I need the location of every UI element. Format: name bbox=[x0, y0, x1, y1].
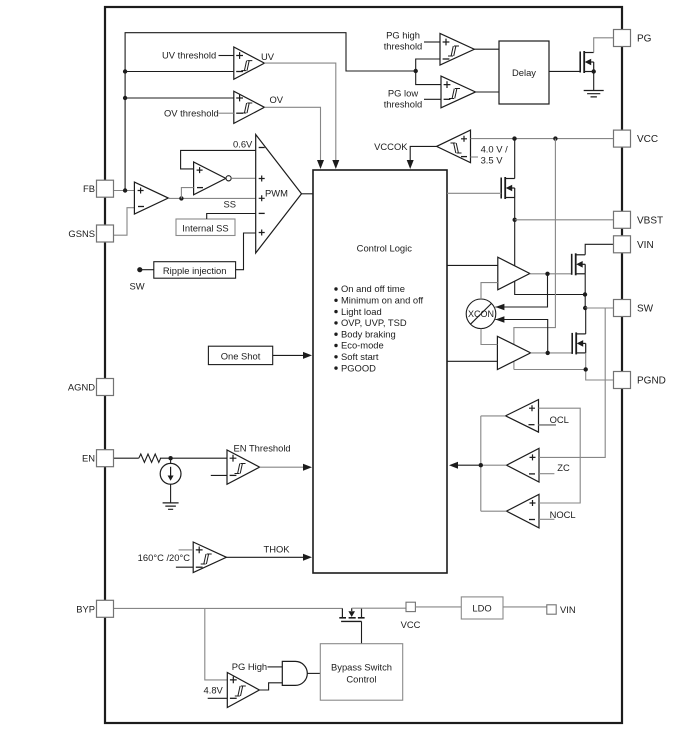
svg-text:VCC: VCC bbox=[637, 134, 658, 145]
wire VBST to pin bbox=[515, 219, 614, 221]
wire XCON gate-sense high bbox=[495, 274, 547, 307]
wire EN comparator output bbox=[260, 466, 304, 468]
wire Q4 source to PGND bbox=[586, 353, 614, 380]
wire FB pin to error amp + bbox=[114, 190, 134, 192]
node SW junction bbox=[583, 306, 587, 310]
wire Q2 drain to VCC bbox=[514, 139, 516, 179]
svg-text:OV threshold: OV threshold bbox=[164, 108, 219, 119]
svg-text:Bypass Switch: Bypass Switch bbox=[331, 662, 392, 673]
wire Q1 source down bbox=[593, 72, 595, 91]
arrow into XCON lower bbox=[495, 316, 504, 323]
svg-text:LDO: LDO bbox=[472, 603, 491, 614]
svg-text:SW: SW bbox=[637, 304, 654, 315]
wire Q5 gate to Bypass Switch Control bbox=[361, 621, 363, 643]
svg-text:UV threshold: UV threshold bbox=[162, 50, 216, 61]
box Delay bbox=[499, 41, 549, 104]
wire VCCOK output to Control Logic bbox=[410, 146, 436, 165]
wire SW to pin bbox=[585, 307, 613, 309]
svg-text:threshold: threshold bbox=[384, 99, 423, 110]
svg-text:4.8V: 4.8V bbox=[204, 685, 224, 696]
wire 0.6V comparator output to PWM + bbox=[231, 177, 256, 179]
pin PG bbox=[614, 30, 631, 47]
box Ripple injection bbox=[154, 262, 236, 279]
svg-text:4.0 V /: 4.0 V / bbox=[481, 144, 508, 155]
comparator EN threshold bbox=[227, 450, 260, 484]
wire Q4 drain to SW node bbox=[585, 308, 587, 334]
node low gate junction bbox=[546, 351, 550, 355]
wire THOK output bbox=[226, 556, 304, 558]
wire Q2 source to VBST node bbox=[514, 198, 516, 220]
comparator PWM bbox=[256, 135, 302, 254]
comparator thermal THOK bbox=[193, 542, 226, 573]
svg-text:PG high: PG high bbox=[386, 30, 420, 41]
wire PWM output to Control Logic bbox=[302, 193, 314, 195]
comparator 4.8V bypass bbox=[227, 673, 259, 708]
wire Ripple injection to PWM + bbox=[236, 233, 256, 270]
wire EN pin to resistor bbox=[114, 457, 139, 459]
wire UV threshold stub bbox=[219, 55, 234, 57]
wire FB sense rail to PG comparators (top loop) bbox=[125, 33, 416, 191]
wire One Shot to Control Logic bbox=[273, 354, 304, 356]
wire VBST rail down behind driver bbox=[515, 220, 585, 295]
wire EN node to comparator bbox=[160, 457, 227, 459]
svg-text:OV: OV bbox=[270, 94, 284, 105]
node high gate junction bbox=[545, 272, 549, 276]
comparator ZC bbox=[507, 448, 540, 482]
svg-text:Ripple injection: Ripple injection bbox=[163, 265, 227, 276]
node Q4 source junction bbox=[584, 367, 588, 371]
comparator OCL bbox=[506, 400, 539, 433]
wire PG low - stub bbox=[424, 98, 441, 100]
wire XCON to low driver bbox=[481, 329, 497, 345]
pin AGND bbox=[97, 379, 114, 396]
bubble on 0.6V comparator output bbox=[226, 176, 231, 181]
pin BYP bbox=[97, 600, 114, 617]
current source EN pulldown bbox=[160, 463, 181, 484]
wire NOCL - stub bbox=[539, 518, 554, 520]
wire comparator output rail bbox=[480, 416, 482, 511]
node PG tie junction bbox=[414, 69, 418, 73]
arrow THOK into Control Logic bbox=[303, 554, 312, 561]
wire OV output to Control Logic bbox=[264, 107, 320, 165]
node FB junction bbox=[123, 188, 127, 192]
node comparator rail junction bbox=[479, 463, 483, 467]
arrow One Shot into Control Logic bbox=[303, 352, 312, 359]
svg-text:160°C /20°C: 160°C /20°C bbox=[138, 552, 191, 563]
arrow comparators into Control Logic bbox=[449, 462, 458, 469]
svg-text:PGOOD: PGOOD bbox=[341, 362, 376, 373]
node VCC junction 1 bbox=[512, 136, 516, 140]
svg-text:SW: SW bbox=[130, 281, 145, 292]
svg-text:Control Logic: Control Logic bbox=[357, 243, 413, 254]
wire PG comparator tie rail bbox=[416, 59, 441, 85]
node VBST junction bbox=[513, 218, 517, 222]
svg-text:Eco-mode: Eco-mode bbox=[341, 340, 384, 351]
svg-text:One Shot: One Shot bbox=[221, 351, 261, 362]
pin SW bbox=[614, 300, 631, 317]
wire OCL - stub bbox=[539, 424, 557, 426]
pin VIN bbox=[614, 236, 631, 253]
node error output junction bbox=[179, 196, 183, 200]
svg-text:OVP, UVP, TSD: OVP, UVP, TSD bbox=[341, 317, 407, 328]
wire ZC output bbox=[481, 464, 507, 466]
wire AND output to Bypass Switch Control bbox=[307, 672, 320, 674]
wire ZC + to SW rail bbox=[539, 308, 605, 457]
pin FB bbox=[97, 180, 114, 197]
wire error amp output to PWM + bbox=[168, 197, 255, 199]
wire THOK + stub bbox=[179, 549, 194, 551]
pin GSNS bbox=[97, 225, 114, 242]
svg-text:OCL: OCL bbox=[550, 414, 569, 425]
wire high driver output to Q3 gate bbox=[530, 273, 572, 275]
pin VBST bbox=[614, 211, 631, 228]
wire GSNS to error amp - bbox=[114, 208, 134, 236]
transistor Q5 bypass switch bbox=[341, 608, 343, 617]
wire VCCOK - stub bbox=[471, 156, 479, 158]
node FB rail to UV- junction bbox=[123, 69, 127, 73]
transistor Q3 high-side FET bbox=[571, 254, 573, 275]
XCON cross-conduction block U-XCON bbox=[466, 299, 496, 329]
terminal VCC (internal) bbox=[406, 602, 415, 611]
wire OV+ input bbox=[125, 97, 234, 99]
buffer low-side driver bbox=[497, 336, 530, 369]
gate AND bypass enable bbox=[282, 661, 307, 685]
node VBST rail to SW node bbox=[583, 292, 587, 296]
svg-text:EN: EN bbox=[82, 453, 95, 464]
wire PG high output to Delay bbox=[474, 48, 499, 50]
svg-text:PWM: PWM bbox=[265, 188, 288, 199]
comparator PG high bbox=[440, 33, 474, 65]
wire current source to ground bbox=[170, 484, 172, 503]
wire high driver input from Control Logic bbox=[447, 264, 498, 266]
transistor Q4 low-side FET bbox=[571, 333, 573, 354]
svg-text:Delay: Delay bbox=[512, 67, 536, 78]
svg-text:Soft start: Soft start bbox=[341, 351, 379, 362]
wire 4.8V - stub bbox=[208, 697, 228, 699]
comparator OV (overvoltage) bbox=[234, 91, 265, 123]
svg-text:XCON: XCON bbox=[468, 309, 494, 319]
svg-text:VIN: VIN bbox=[637, 240, 654, 251]
svg-text:PG High: PG High bbox=[232, 661, 267, 672]
svg-text:THOK: THOK bbox=[264, 544, 291, 555]
resistor EN input bbox=[139, 454, 161, 462]
svg-text:3.5 V: 3.5 V bbox=[481, 155, 504, 166]
wire PG High stub bbox=[268, 666, 283, 668]
svg-text:GSNS: GSNS bbox=[68, 228, 95, 239]
wire Delay output to Q1 gate bbox=[549, 70, 580, 72]
node Q1 source-body bbox=[592, 69, 596, 73]
wire SW tap to Ripple injection box bbox=[140, 269, 154, 271]
wire BYP line bbox=[114, 607, 342, 609]
wire comparators to Control Logic bbox=[456, 464, 481, 466]
svg-text:threshold: threshold bbox=[384, 41, 423, 52]
svg-text:AGND: AGND bbox=[68, 382, 95, 393]
wire Q2 gate from Control Logic bbox=[447, 192, 501, 194]
svg-text:VIN: VIN bbox=[560, 604, 576, 615]
wire VCC line bbox=[471, 138, 614, 140]
op-amp error comparator bbox=[134, 182, 168, 214]
wire Q3 source to SW node bbox=[584, 274, 586, 308]
pin VCC bbox=[614, 130, 631, 147]
box Control Logic bbox=[313, 170, 447, 573]
IC outer boundary box bbox=[105, 7, 622, 723]
terminal VIN (LDO input) bbox=[547, 605, 556, 614]
box Bypass Switch Control bbox=[320, 644, 402, 701]
pin PGND bbox=[614, 372, 631, 389]
transistor Q2 VBST switch bbox=[500, 178, 502, 199]
wire PG high + stub bbox=[424, 41, 440, 43]
svg-text:PGND: PGND bbox=[637, 376, 666, 387]
svg-text:Light load: Light load bbox=[341, 306, 382, 317]
svg-text:Control: Control bbox=[346, 674, 376, 685]
comparator PG low bbox=[441, 76, 476, 108]
comparator NOCL bbox=[507, 494, 540, 528]
svg-text:NOCL: NOCL bbox=[550, 509, 576, 520]
wire OV threshold stub bbox=[219, 112, 234, 114]
wire 4.8V comparator output to AND bbox=[259, 683, 282, 690]
comparator 0.6V clamp bbox=[194, 162, 226, 195]
wire EN - stub bbox=[211, 474, 227, 476]
wire NOCL output bbox=[481, 510, 507, 512]
box Internal SS bbox=[176, 219, 235, 236]
wire ZC - stub bbox=[539, 473, 554, 475]
wire BYP sense drop bbox=[205, 608, 228, 680]
wire VCC terminal to LDO bbox=[415, 606, 461, 608]
wire LDO to VIN terminal bbox=[503, 606, 547, 608]
svg-text:ZC: ZC bbox=[557, 462, 570, 473]
arrow VCCOK into Control Logic bbox=[407, 160, 414, 169]
svg-text:SS: SS bbox=[224, 199, 237, 210]
wire Q1 drain to PG pin bbox=[594, 38, 614, 53]
comparator UV (undervoltage) bbox=[234, 47, 265, 79]
svg-text:Body braking: Body braking bbox=[341, 328, 396, 339]
wire XCON gate-sense low bbox=[495, 320, 547, 353]
node VCC junction 2 bbox=[553, 136, 557, 140]
svg-text:PG low: PG low bbox=[388, 88, 418, 99]
svg-text:EN Threshold: EN Threshold bbox=[234, 443, 291, 454]
wire low driver input from Control Logic bbox=[447, 360, 497, 362]
arrow UV into Control Logic bbox=[332, 160, 339, 169]
svg-text:Internal SS: Internal SS bbox=[182, 223, 228, 234]
svg-text:VCC: VCC bbox=[401, 619, 421, 630]
arrow EN into Control Logic bbox=[303, 464, 312, 471]
wire Internal SS to PWM - bbox=[207, 214, 256, 220]
svg-text:0.6V: 0.6V bbox=[233, 139, 253, 150]
node EN divider junction bbox=[168, 456, 172, 460]
box One Shot bbox=[208, 346, 272, 364]
wire Q5 drain to VCC terminal bbox=[352, 607, 406, 609]
svg-text:VBST: VBST bbox=[637, 215, 663, 226]
wire driver return to Q4 source bbox=[514, 369, 586, 371]
transistor Q1 PG open-drain FET bbox=[579, 52, 581, 73]
wire 0.6V comparator - feedback bbox=[181, 188, 193, 199]
svg-text:Minimum on and off: Minimum on and off bbox=[341, 295, 424, 306]
node SW ripple tap bbox=[137, 267, 142, 272]
node FB rail to OV+ junction bbox=[123, 96, 127, 100]
wire OCL/NOCL + rail bbox=[539, 408, 581, 503]
svg-text:PG: PG bbox=[637, 34, 652, 45]
wire Q3 drain to VIN pin bbox=[585, 244, 613, 255]
wire THOK - stub bbox=[176, 566, 193, 568]
ground at EN current source bbox=[163, 503, 179, 509]
buffer high-side driver bbox=[498, 257, 530, 290]
wire UV output to Control Logic bbox=[264, 63, 335, 165]
ground at Q1 source bbox=[584, 91, 604, 97]
box LDO bbox=[461, 597, 503, 619]
wire PG low output to Delay bbox=[476, 91, 500, 93]
svg-text:FB: FB bbox=[83, 183, 95, 194]
svg-text:VCCOK: VCCOK bbox=[374, 141, 408, 152]
pin EN bbox=[97, 450, 114, 467]
wire UV- input bbox=[125, 71, 234, 73]
wire XCON to high driver bbox=[481, 283, 498, 299]
wire OCL output bbox=[481, 415, 506, 417]
arrow into XCON upper bbox=[495, 304, 504, 311]
wire VCC rail to driver return bbox=[514, 139, 556, 370]
arrow OV into Control Logic bbox=[317, 160, 324, 169]
svg-text:UV: UV bbox=[261, 51, 275, 62]
comparator VCCOK bbox=[437, 130, 471, 163]
svg-text:BYP: BYP bbox=[76, 603, 95, 614]
wire low driver output to Q4 gate bbox=[531, 352, 573, 354]
wire 0.6V reference net bbox=[181, 150, 256, 169]
svg-text:On and off time: On and off time bbox=[341, 283, 405, 294]
